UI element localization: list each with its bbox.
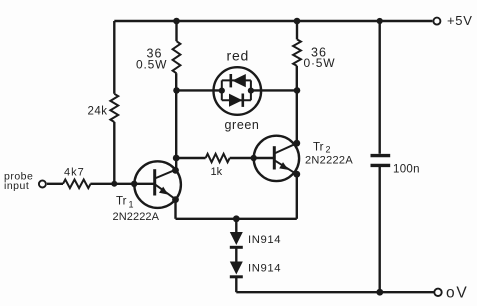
svg-text:24k: 24k <box>88 106 108 118</box>
wire: left branch lower (24k to probe node) <box>113 122 115 184</box>
led red (top, cathode left) <box>227 48 250 88</box>
node: top rail junction to 36R right <box>294 18 301 25</box>
node: LED left junction <box>173 87 180 94</box>
node: Tr1 base entry <box>131 181 137 187</box>
terminal probe input <box>4 170 46 192</box>
wire: emitter bus <box>176 218 297 220</box>
wire: C1 down to 0V rail <box>379 167 381 292</box>
terminal 0V <box>434 285 468 302</box>
node: LED right junction <box>294 87 301 94</box>
svg-text:0·5W: 0·5W <box>304 56 336 70</box>
wire: top rail down to C1 <box>379 21 381 154</box>
svg-text:1k: 1k <box>211 166 223 178</box>
wire: D2 to 0V rail <box>235 278 237 292</box>
resistor 36 0.5W (left) <box>136 41 180 73</box>
resistor 24k <box>88 94 119 122</box>
resistor 36 0.5W (right) <box>293 39 335 70</box>
wire: LED left lead <box>177 89 222 91</box>
led green (bottom, cathode right) <box>225 94 260 132</box>
svg-text:0.5W: 0.5W <box>136 58 167 72</box>
node: LED frame left <box>219 88 225 94</box>
wire: LED right lead <box>251 89 297 91</box>
wire: 1k to Tr2 base <box>230 157 275 159</box>
wire: Tr1 emitter drop <box>174 200 176 219</box>
svg-text:oV: oV <box>446 285 469 302</box>
node: bottom rail junction to C1 <box>376 289 383 296</box>
svg-text:red: red <box>227 48 250 64</box>
wire: top rail to 36 left <box>175 21 177 41</box>
svg-text:input: input <box>4 180 29 192</box>
wire: +5V top rail <box>114 20 432 22</box>
diode D2 1N914 <box>230 262 281 277</box>
wire: 36 left down to Tr1 collector <box>175 73 177 170</box>
wire: probe terminal to 4k7 <box>47 183 63 185</box>
node: top rail junction to 36R left <box>173 18 180 25</box>
svg-text:2N2222A: 2N2222A <box>305 155 353 167</box>
svg-text:IN914: IN914 <box>248 263 281 275</box>
wire: collector node to 1k <box>176 157 205 159</box>
transistor Tr1 2N2222A <box>113 161 181 223</box>
svg-text:4k7: 4k7 <box>64 166 85 178</box>
svg-text:2N2222A: 2N2222A <box>113 211 160 223</box>
svg-text:100n: 100n <box>393 164 420 176</box>
capacitor C1 100n <box>371 156 420 176</box>
node: Tr1 emitter <box>172 196 179 203</box>
svg-text:Tr: Tr <box>313 142 324 154</box>
resistor 4k7 <box>63 166 91 188</box>
node: Tr2 base entry <box>251 155 257 161</box>
svg-text:IN914: IN914 <box>248 234 281 246</box>
svg-text:Tr: Tr <box>116 196 127 208</box>
node: Tr2 collector <box>293 140 300 147</box>
node: top rail junction to C1 <box>377 18 383 24</box>
LED bi-colour package circle <box>214 67 262 115</box>
svg-text:2: 2 <box>326 145 331 155</box>
wire: left branch upper (top rail to 24k) <box>113 21 115 94</box>
svg-text:+5V: +5V <box>447 13 473 28</box>
wire: Tr2 emitter drop <box>296 174 298 219</box>
node: 1k tee on collector branch <box>173 155 180 162</box>
wire: 36 right down to Tr2 collector <box>296 66 298 143</box>
terminal +5V <box>433 13 472 28</box>
wire: top rail to 36 right <box>296 21 298 39</box>
wire: bus to D1 <box>235 219 237 233</box>
wire: 4k7 to Tr1 base <box>90 183 154 185</box>
wire: LED internal frame <box>222 80 251 100</box>
node: emitter bus to diode chain <box>233 215 240 222</box>
svg-text:1: 1 <box>129 200 134 210</box>
node: Tr1 collector <box>172 167 179 174</box>
svg-text:green: green <box>225 118 260 132</box>
node: junction 24k / probe wire <box>111 181 117 187</box>
resistor 1k <box>206 154 230 178</box>
node: LED frame right <box>248 88 254 94</box>
transistor Tr2 2N2222A <box>254 136 354 181</box>
node: Tr2 emitter <box>293 171 300 178</box>
diode D1 1N914 <box>230 232 281 247</box>
wire: D1 to D2 <box>235 249 237 262</box>
wire: 0V bottom rail <box>236 291 433 293</box>
